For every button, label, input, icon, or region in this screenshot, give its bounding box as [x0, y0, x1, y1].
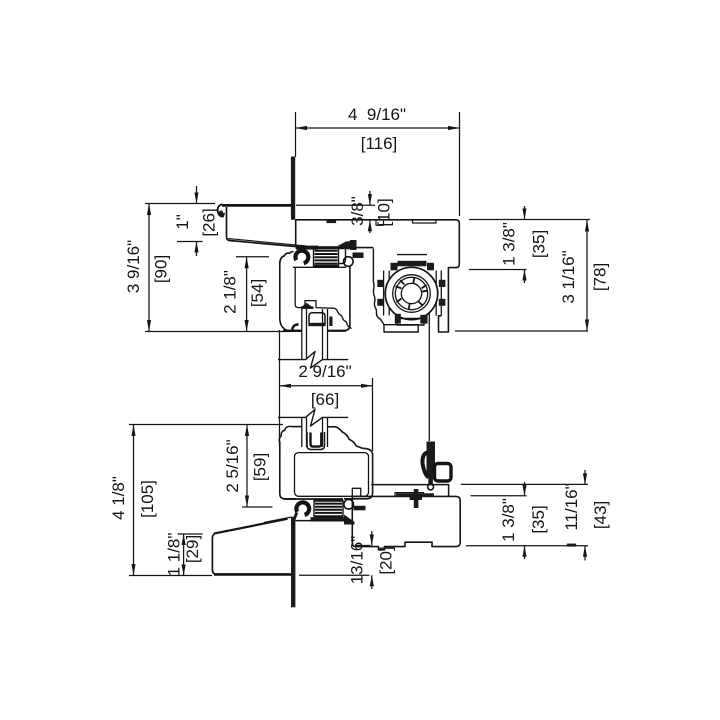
upper sash inner top line	[293, 266, 346, 268]
svg-text:[78]: [78]	[591, 263, 610, 291]
break line upper	[278, 352, 348, 369]
dimension text [35] lower right	[529, 505, 548, 533]
dimension 3 1/16 [78] right	[455, 220, 589, 331]
svg-text:[43]: [43]	[591, 501, 610, 529]
upper sash inner pocket walls	[302, 309, 328, 360]
svg-text:[54]: [54]	[248, 279, 267, 307]
roller housing top bracket	[398, 261, 427, 267]
dimension 2 1/8 [54] upper left	[236, 257, 269, 332]
svg-text:1 1/8": 1 1/8"	[165, 533, 184, 577]
svg-text:3/8": 3/8"	[348, 196, 367, 226]
dimension 1 1/8 [29] lower left	[178, 534, 203, 576]
dimension 2 5/16 [59] lower left	[242, 425, 273, 508]
dimension text 3 9/16"	[124, 240, 143, 293]
sill frame corner step	[352, 488, 361, 496]
dimension text 1 3/8" upper right	[500, 222, 519, 266]
svg-text:13/16": 13/16"	[348, 536, 367, 585]
dimension text [43]	[591, 501, 610, 529]
dimension text [105]	[138, 480, 157, 518]
lower weatherstrip block striped	[314, 501, 343, 517]
upper weatherstrip block striped	[314, 248, 339, 267]
roller wheel spokes	[396, 277, 428, 309]
upper weatherstrip curl	[295, 251, 308, 264]
dimension 3 9/16 [90] upper left	[145, 204, 290, 332]
latch pin ring	[428, 484, 434, 490]
roller housing left wall	[383, 271, 385, 316]
svg-text:3 9/16": 3 9/16"	[124, 240, 143, 293]
svg-text:[116]: [116]	[361, 134, 398, 153]
svg-text:[26]: [26]	[200, 208, 219, 236]
roller pocket left wall	[373, 249, 384, 325]
svg-text:1 3/8": 1 3/8"	[499, 498, 518, 542]
track bottom flange	[384, 325, 418, 332]
dimension text 3 1/16"	[559, 250, 578, 303]
interlock hook dark	[350, 240, 357, 250]
roller housing right wall	[435, 271, 437, 316]
sill bottom ext dark dash	[567, 544, 576, 547]
svg-text:4 1/8": 4 1/8"	[109, 476, 128, 520]
head frame top notch 1	[376, 220, 384, 226]
svg-text:1": 1"	[173, 214, 192, 230]
dimension text [54]	[248, 279, 267, 307]
dimension 4 1/8 [105] lower left	[129, 425, 283, 576]
dimension text [35] upper right	[530, 230, 549, 258]
lower sash inner rect	[295, 453, 369, 497]
dimension 2 9/16 [66] middle	[280, 330, 373, 451]
upper sash bottom right and right edge	[327, 267, 350, 331]
dimension text [78]	[591, 263, 610, 291]
svg-text:3 1/16": 3 1/16"	[559, 250, 578, 303]
svg-text:4 9/16": 4 9/16"	[348, 105, 406, 124]
svg-text:2 1/8": 2 1/8"	[221, 270, 240, 314]
sill frame outline	[352, 496, 460, 549]
dimension text 11/16"	[562, 483, 581, 530]
upper sash left edge and bottom	[280, 262, 302, 331]
lower sash pin	[354, 506, 366, 511]
svg-text:1 3/8": 1 3/8"	[500, 222, 519, 266]
break line lower	[278, 410, 348, 427]
svg-text:2 5/16": 2 5/16"	[223, 439, 242, 492]
roller wheel rings	[393, 275, 431, 313]
svg-text:[29]: [29]	[183, 535, 202, 563]
dimension 3/8 [10] top middle	[296, 191, 375, 233]
roller housing side tabs	[377, 280, 383, 287]
upper sash cap right of strip	[339, 246, 346, 264]
dimension 1 [26] upper left	[177, 186, 203, 256]
head trim top line	[222, 204, 293, 207]
svg-text:[90]: [90]	[152, 255, 171, 283]
lower sash right edge	[344, 448, 373, 499]
upper sash wedge dark	[301, 303, 314, 308]
svg-text:11/16": 11/16"	[562, 483, 581, 530]
svg-text:[35]: [35]	[530, 230, 549, 258]
nailing fin bottom	[291, 517, 295, 608]
roller wheel outer	[385, 267, 437, 319]
dimension text 2 5/16"	[223, 439, 242, 492]
lower sash left edge and bottom	[280, 448, 296, 499]
dimension 1 3/8 [35] upper right	[469, 206, 590, 283]
roller pocket ceiling	[397, 254, 427, 256]
dimension text 1 3/8" lower right	[499, 498, 518, 542]
head trim hook	[218, 204, 225, 216]
dimension 11/16 [43] lower right	[461, 470, 588, 561]
latch rounded square	[435, 464, 452, 482]
sill frame T-bolt	[414, 489, 419, 508]
dimension text 1 1/8"	[165, 533, 184, 577]
head frame weatherstrip dash	[327, 220, 337, 223]
dimension text 2 1/8"	[221, 270, 240, 314]
lower sash bracket dark	[344, 515, 355, 525]
lock rod	[428, 313, 430, 441]
dimension text 3/8"	[348, 196, 367, 226]
svg-text:[59]: [59]	[251, 453, 270, 481]
upper sash pin	[353, 253, 364, 259]
svg-text:2 9/16": 2 9/16"	[298, 362, 351, 381]
head frame top notch 2	[413, 220, 437, 223]
dimension text 4 1/8"	[109, 476, 128, 520]
svg-text:[66]: [66]	[311, 390, 339, 409]
lower weatherstrip curl	[296, 502, 309, 515]
dimension 13/16 [20] bottom middle	[299, 531, 374, 589]
dimension text 13/16"	[348, 536, 367, 585]
dimension 4 9/16 [116] top	[296, 112, 460, 216]
svg-text:[35]: [35]	[529, 505, 548, 533]
upper sash inner pocket left	[295, 268, 335, 309]
latch curl	[422, 453, 428, 478]
svg-text:[105]: [105]	[138, 480, 157, 518]
upper glazing block	[309, 313, 325, 326]
lower glazing block	[307, 432, 325, 450]
lower sash top right bumps	[327, 427, 362, 449]
nailing fin top	[291, 157, 295, 220]
dimension text [10]	[375, 198, 394, 226]
upper sash corner dark	[340, 241, 353, 247]
upper sash small circle	[344, 257, 354, 267]
lower sash top-left bumps	[279, 426, 292, 449]
dimension text [29]	[183, 535, 202, 563]
latch body	[427, 442, 436, 475]
lower sash pocket walls	[302, 417, 328, 447]
head frame outline	[296, 220, 460, 332]
lower weatherstrip base plate	[311, 517, 345, 521]
upper sash top-left gasket bumps	[280, 252, 294, 263]
upper sash break wavy	[335, 308, 352, 328]
keeper line	[371, 485, 448, 497]
head frame bottom edge thick	[296, 246, 350, 249]
dimension text [90]	[152, 255, 171, 283]
dimension text [59]	[251, 453, 270, 481]
sill nose left edge	[212, 533, 217, 574]
brick mould body	[227, 207, 309, 248]
dimension text 1"	[173, 214, 192, 230]
sill frame top tab	[395, 493, 424, 497]
dimension text [20]	[377, 546, 396, 574]
sill deck slope	[214, 519, 288, 534]
dimension text [26]	[200, 208, 219, 236]
latch pin	[428, 475, 433, 485]
dimension 1 3/8 [35] lower right	[471, 482, 527, 559]
lower sash small circle	[344, 500, 354, 510]
roller housing bottom cap	[397, 319, 424, 326]
sill bottom thick	[214, 573, 291, 576]
